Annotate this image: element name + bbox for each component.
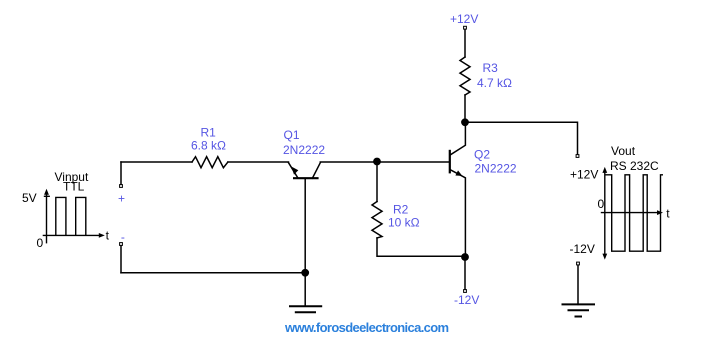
svg-text:+12V: +12V — [450, 12, 478, 26]
svg-text:Vout: Vout — [611, 144, 636, 158]
svg-text:Q1: Q1 — [284, 128, 300, 142]
svg-text:2N2222: 2N2222 — [475, 162, 517, 176]
svg-text:+12V: +12V — [570, 168, 598, 182]
svg-text:6.8 kΩ: 6.8 kΩ — [191, 139, 226, 153]
svg-text:R1: R1 — [201, 126, 217, 140]
svg-text:Q2: Q2 — [474, 148, 490, 162]
svg-text:-: - — [121, 230, 125, 244]
svg-text:4.7 kΩ: 4.7 kΩ — [477, 76, 512, 90]
svg-text:-12V: -12V — [454, 293, 479, 307]
svg-text:+: + — [118, 191, 125, 205]
svg-text:-12V: -12V — [570, 242, 595, 256]
svg-text:R2: R2 — [393, 203, 409, 217]
svg-text:www.forosdeelectronica.com: www.forosdeelectronica.com — [284, 320, 449, 335]
svg-text:5V: 5V — [22, 191, 37, 205]
svg-text:0: 0 — [37, 236, 44, 250]
svg-text:R3: R3 — [483, 61, 499, 75]
svg-text:TTL: TTL — [63, 180, 85, 194]
svg-text:0: 0 — [598, 197, 605, 211]
svg-text:RS 232C: RS 232C — [610, 159, 659, 173]
svg-text:2N2222: 2N2222 — [283, 143, 325, 157]
svg-text:10 kΩ: 10 kΩ — [388, 216, 420, 230]
